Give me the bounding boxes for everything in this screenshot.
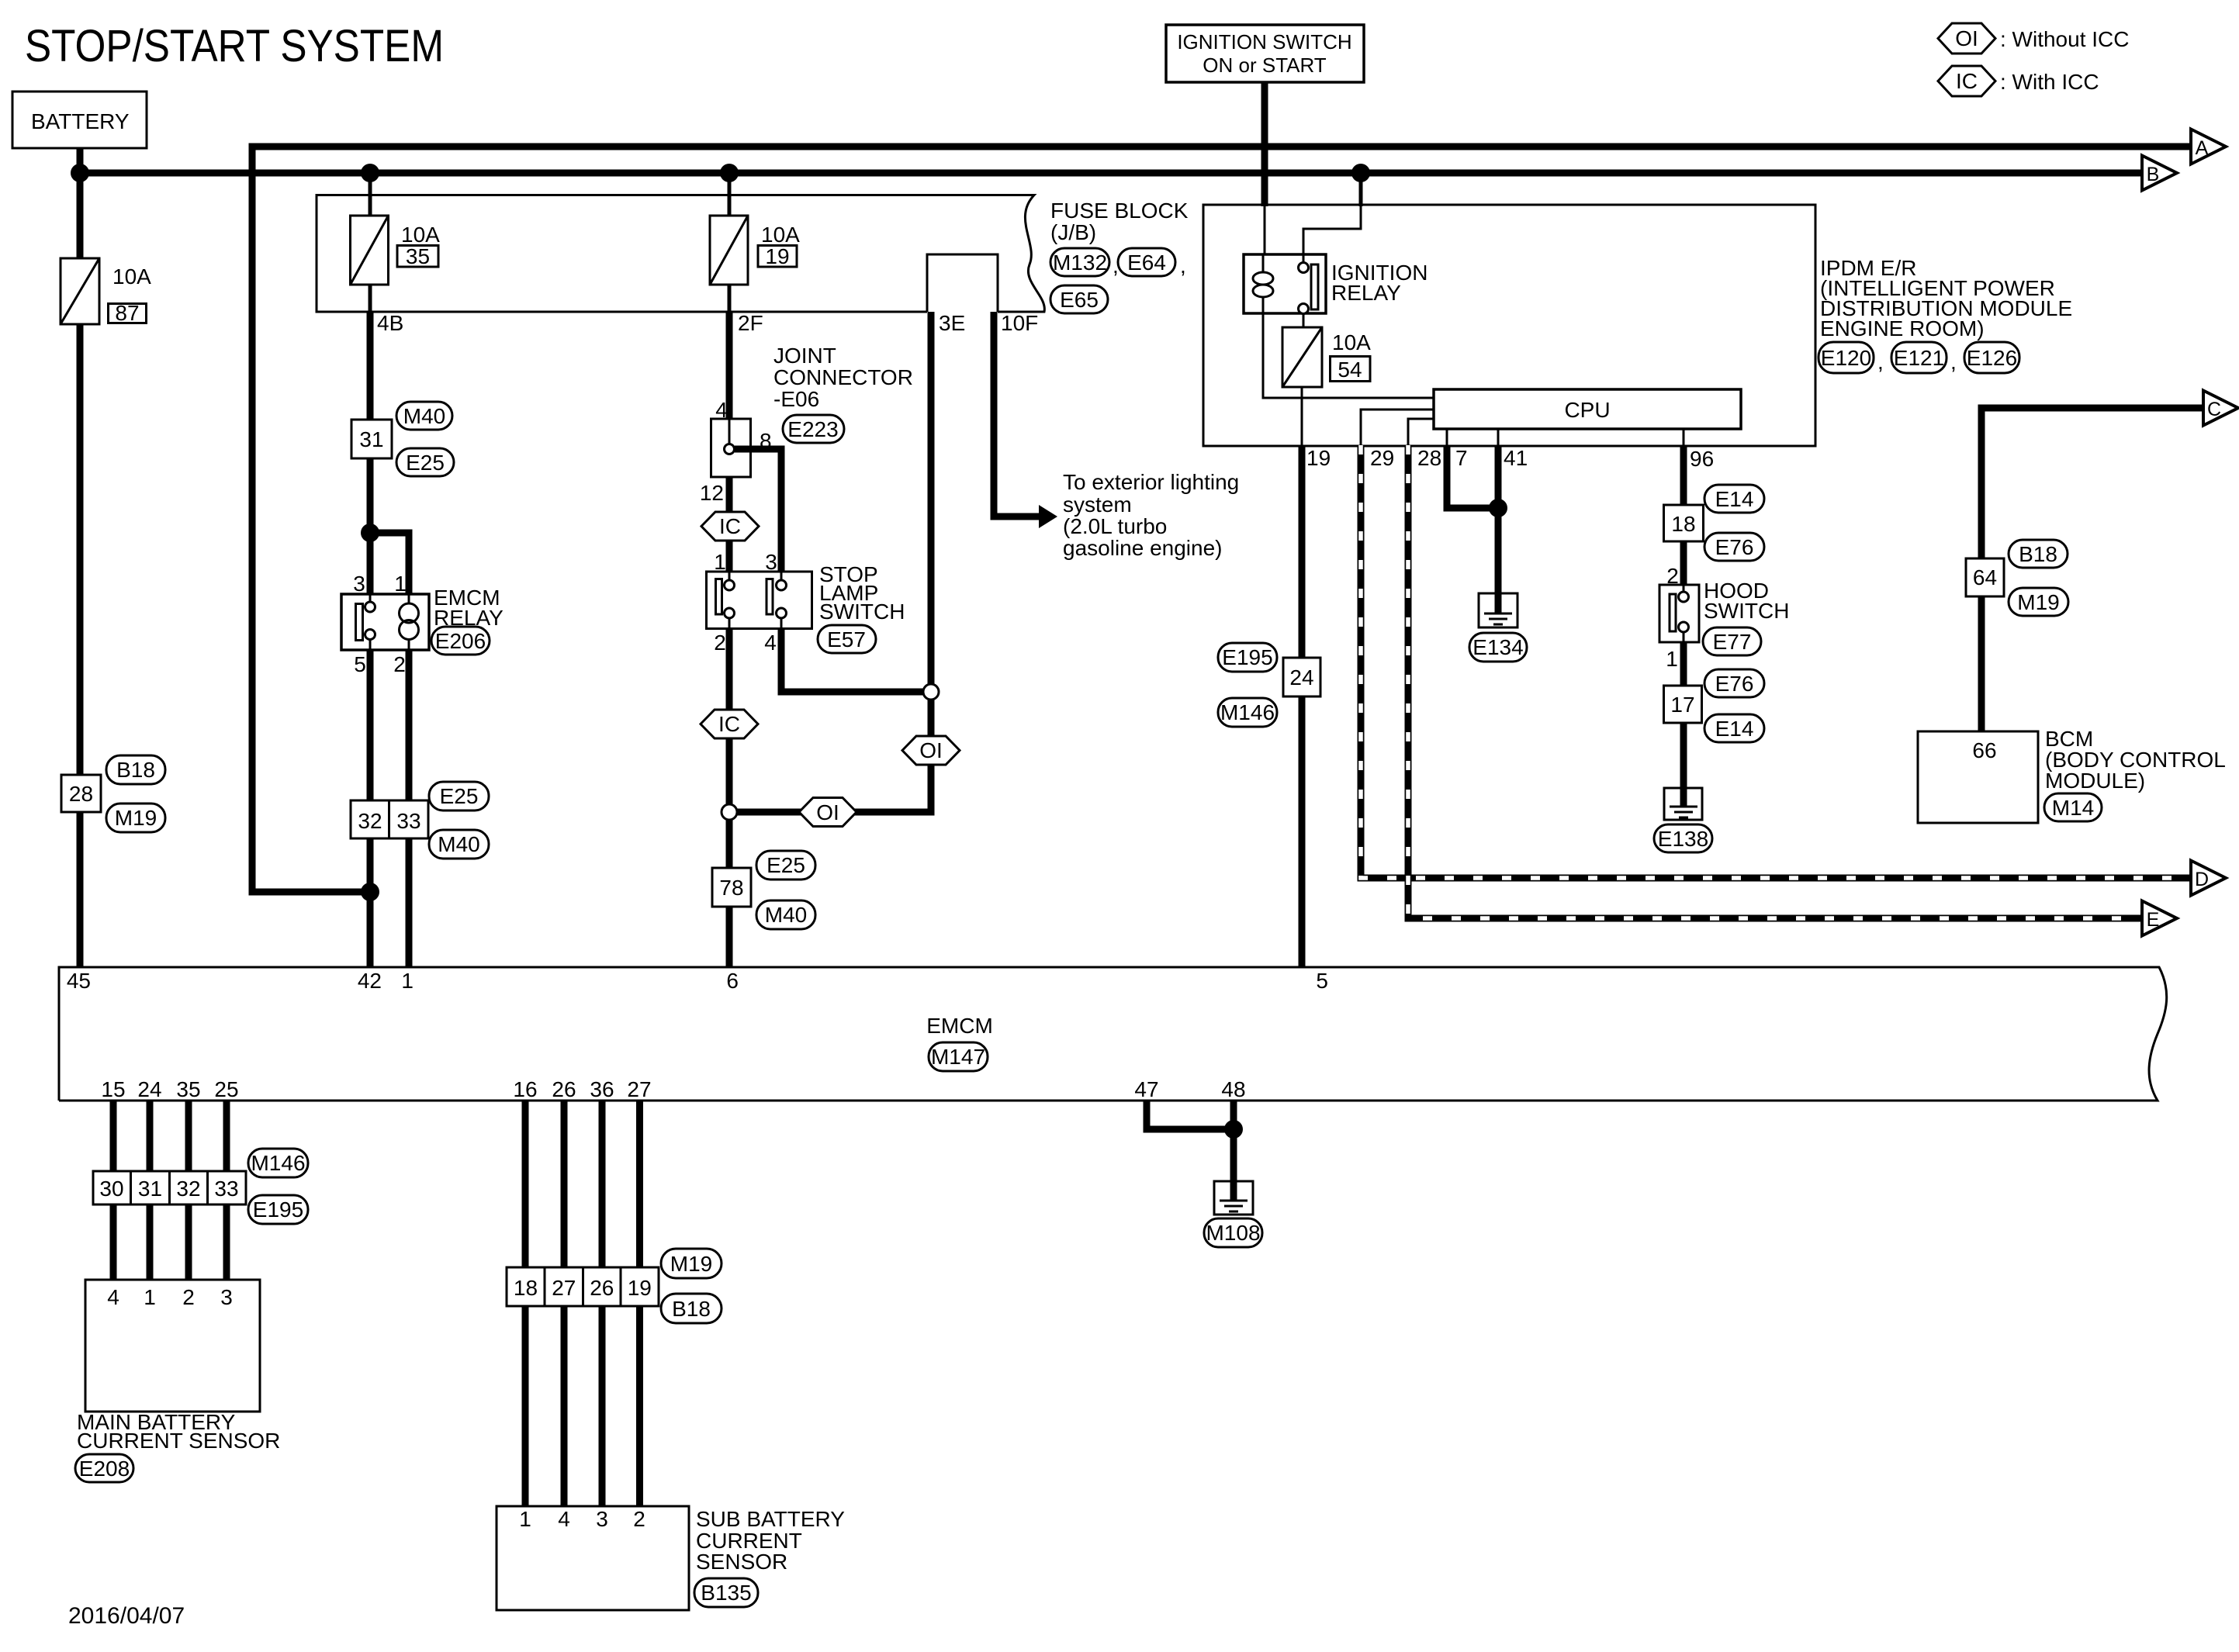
svg-text:64: 64 <box>1973 565 1997 589</box>
BCM box <box>1918 731 2038 823</box>
svg-text:33: 33 <box>214 1177 238 1201</box>
legend IC hexagon : With ICC <box>1938 66 2099 96</box>
svg-text:29: 29 <box>1370 446 1394 470</box>
CPU box <box>1434 389 1741 429</box>
svg-text:ENGINE ROOM): ENGINE ROOM) <box>1820 316 1985 340</box>
wire 3E column x1200 <box>928 312 935 812</box>
text STOP LAMP SWITCH <box>819 562 905 624</box>
svg-text:1: 1 <box>1666 647 1678 671</box>
svg-text:4: 4 <box>715 398 728 422</box>
ignition relay contact <box>1299 254 1319 327</box>
svg-text:87: 87 <box>115 301 139 325</box>
junction EMCM relay branch <box>361 524 379 542</box>
svg-text:41: 41 <box>1504 446 1528 470</box>
svg-text:M19: M19 <box>115 806 157 830</box>
fuse F19 10A <box>710 216 800 285</box>
svg-text:54: 54 <box>1338 358 1362 382</box>
connector oval E195 at 24 <box>1218 643 1277 672</box>
svg-text:IC: IC <box>1956 69 1978 93</box>
IC hexagon on pin2 wire <box>701 710 758 738</box>
fuse block J/B outline <box>317 195 1044 313</box>
stop lamp switch right contact <box>767 572 787 628</box>
IPDM E/R box <box>1203 205 1815 446</box>
EMCM bottom pin labels 47 48 <box>1134 1077 1245 1101</box>
svg-text:1: 1 <box>144 1285 156 1309</box>
pin labels under IPDM <box>1306 446 1714 471</box>
wire pin7 L to pin41 <box>1447 445 1498 508</box>
fuse F87 10A <box>61 258 151 325</box>
hood switch contact <box>1670 585 1689 642</box>
svg-text:E14: E14 <box>1715 717 1754 741</box>
svg-text:26: 26 <box>552 1077 576 1101</box>
svg-text:25: 25 <box>214 1077 238 1101</box>
svg-text:: With ICC: : With ICC <box>2000 70 2099 94</box>
label 10F <box>1001 311 1038 335</box>
svg-text:(J/B): (J/B) <box>1050 220 1096 244</box>
wire JC pin8 to stop lamp pin3 <box>735 449 781 574</box>
svg-text:ON or START: ON or START <box>1203 54 1327 77</box>
svg-text:36: 36 <box>590 1077 614 1101</box>
svg-text:E: E <box>2147 909 2160 931</box>
svg-text:10F: 10F <box>1001 311 1038 335</box>
svg-text:19: 19 <box>1306 446 1331 470</box>
ground M108 <box>1214 1181 1253 1215</box>
svg-text:10A: 10A <box>761 223 800 247</box>
svg-text:M40: M40 <box>403 404 445 428</box>
svg-text:To exterior lighting: To exterior lighting <box>1063 470 1239 494</box>
wire fuse19 column 2F x940 <box>728 173 732 422</box>
arrowhead to exterior lighting <box>1039 505 1057 528</box>
wire 3E horizontal to pin2 line <box>735 809 931 812</box>
svg-text:B18: B18 <box>116 758 155 782</box>
svg-text:2F: 2F <box>738 311 763 335</box>
svg-text:STOP/START SYSTEM: STOP/START SYSTEM <box>25 21 444 71</box>
svg-text:4B: 4B <box>377 311 403 335</box>
svg-text:30: 30 <box>99 1177 123 1201</box>
EMCM relay box <box>341 572 429 676</box>
ignition relay box <box>1244 254 1326 313</box>
svg-text:SWITCH: SWITCH <box>1704 599 1789 623</box>
svg-text:M14: M14 <box>2052 796 2094 820</box>
svg-text:IGNITION SWITCH: IGNITION SWITCH <box>1177 30 1351 54</box>
wire EMCM pin48 to ground M108 <box>1230 1101 1237 1185</box>
svg-text:16: 16 <box>513 1077 537 1101</box>
wire fuse35 column 4B x477 <box>369 173 372 967</box>
svg-text:M40: M40 <box>765 903 807 927</box>
svg-text:E14: E14 <box>1715 487 1754 511</box>
stop lamp switch box <box>707 550 812 655</box>
connector oval E64 <box>1118 248 1186 278</box>
svg-text:10A: 10A <box>401 223 440 247</box>
svg-text:SENSOR: SENSOR <box>696 1550 787 1574</box>
svg-text:IC: IC <box>718 712 740 736</box>
svg-text:M19: M19 <box>2017 590 2059 614</box>
svg-text:32: 32 <box>358 809 382 833</box>
connector 64 box <box>1966 558 2004 596</box>
fuse F35 10A <box>351 216 441 285</box>
connector oval E57 <box>818 625 876 653</box>
svg-text:E25: E25 <box>440 784 479 808</box>
connector oval B135 <box>694 1578 758 1607</box>
connector 78 box <box>712 868 751 907</box>
connector oval E208 <box>75 1454 133 1482</box>
wire relay pin2 down to EMCM pin1 <box>406 647 413 967</box>
svg-text:31: 31 <box>138 1177 162 1201</box>
wire pin41 from CPU <box>1497 429 1500 445</box>
svg-text:2: 2 <box>393 652 406 676</box>
EMCM top pin labels <box>67 969 1328 993</box>
connector 24 box on pin19 wire <box>1283 658 1320 696</box>
connector row 30 31 32 33 <box>93 1171 246 1204</box>
wire JC pin12 down to stop lamp pin1 <box>726 477 733 574</box>
svg-text:: Without ICC: : Without ICC <box>2000 27 2129 51</box>
svg-text:M108: M108 <box>1206 1221 1260 1245</box>
svg-text:3: 3 <box>765 550 777 574</box>
svg-text:10A: 10A <box>1332 330 1371 354</box>
svg-text:1: 1 <box>519 1507 531 1531</box>
svg-text:SUB BATTERY: SUB BATTERY <box>696 1507 845 1531</box>
svg-text:E208: E208 <box>79 1457 130 1481</box>
title STOP/START SYSTEM <box>25 21 444 71</box>
svg-text:CONNECTOR: CONNECTOR <box>773 365 913 389</box>
svg-text:CPU: CPU <box>1564 398 1610 422</box>
svg-text:1: 1 <box>401 969 414 993</box>
connector oval M108 <box>1204 1218 1262 1247</box>
text BCM (BODY CONTROL MODULE) <box>2045 727 2226 793</box>
connector oval M14 <box>2044 793 2102 821</box>
svg-text:SWITCH: SWITCH <box>819 600 905 624</box>
svg-text:MODULE): MODULE) <box>2045 769 2145 793</box>
label 2F <box>738 311 763 335</box>
svg-text:E223: E223 <box>787 417 838 441</box>
svg-text:EMCM: EMCM <box>926 1014 993 1038</box>
connector oval B18 <box>106 755 165 784</box>
connector oval M146 row <box>248 1149 308 1177</box>
wires EMCM pins 16 26 36 27 to sub sensor <box>525 1101 640 1506</box>
svg-text:66: 66 <box>1972 738 1996 762</box>
wire pin96 from CPU <box>1683 429 1685 445</box>
svg-text:E76: E76 <box>1715 535 1754 559</box>
svg-text:M146: M146 <box>1220 700 1275 724</box>
svg-text:E65: E65 <box>1060 288 1099 312</box>
svg-text:1: 1 <box>714 550 726 574</box>
svg-text:19: 19 <box>628 1276 652 1300</box>
svg-text:B18: B18 <box>2019 542 2057 566</box>
wire pin19 down to EMCM pin5 <box>1299 445 1306 967</box>
svg-text:17: 17 <box>1670 693 1694 717</box>
svg-text:28: 28 <box>1417 446 1441 470</box>
svg-text:7: 7 <box>1455 446 1468 470</box>
connector oval M132 <box>1050 248 1119 278</box>
label hood pin2 <box>1666 564 1679 588</box>
connector oval E138 <box>1654 824 1712 852</box>
svg-text:28: 28 <box>69 782 93 806</box>
connector oval E120 <box>1819 342 1884 374</box>
svg-text:E195: E195 <box>253 1198 303 1222</box>
svg-text:1: 1 <box>394 572 407 596</box>
svg-text:gasoline engine): gasoline engine) <box>1063 536 1223 560</box>
wire bus A from corner x325 to arrow A <box>252 143 2191 150</box>
svg-text:27: 27 <box>627 1077 651 1101</box>
date 2016/04/07 <box>68 1603 185 1629</box>
arrow D <box>2191 861 2226 896</box>
OI hexagon on horizontal link <box>799 798 856 827</box>
svg-text:32: 32 <box>176 1177 200 1201</box>
wire pin28 dashed to arrow E <box>1408 445 2142 918</box>
junction pin7 pin41 <box>1489 499 1507 517</box>
svg-text:96: 96 <box>1690 447 1714 471</box>
connector oval E76 at 17 <box>1704 669 1764 697</box>
svg-text:33: 33 <box>396 809 420 833</box>
connector 31 box <box>351 420 392 458</box>
connector 18 box on pin96 wire <box>1664 505 1704 541</box>
junction bus B ignition feed <box>1351 164 1370 182</box>
svg-text:OI: OI <box>816 800 839 824</box>
wire pin7 from CPU <box>1446 429 1448 445</box>
legend OI hexagon : Without ICC <box>1938 23 2129 54</box>
svg-text:M132: M132 <box>1053 251 1107 275</box>
svg-text:CURRENT SENSOR: CURRENT SENSOR <box>77 1429 280 1453</box>
svg-text:E64: E64 <box>1127 251 1166 275</box>
EMCM bottom pin labels left group <box>101 1077 238 1101</box>
ground E138 <box>1664 788 1702 820</box>
text JOINT CONNECTOR -E06 <box>773 344 913 411</box>
EMCM relay contact <box>356 594 375 650</box>
connector oval M146 at 24 <box>1218 698 1277 727</box>
wire pin41 down to ground E134 <box>1495 445 1502 597</box>
connector oval E134 <box>1469 633 1527 662</box>
svg-text:2: 2 <box>714 631 726 655</box>
text IGNITION RELAY <box>1331 261 1427 305</box>
svg-text:E76: E76 <box>1715 672 1754 696</box>
connector 32 33 boxes <box>351 800 428 838</box>
arrow E <box>2142 901 2177 936</box>
svg-text:5: 5 <box>1316 969 1328 993</box>
svg-text:24: 24 <box>137 1077 161 1101</box>
connector row 18 27 26 19 <box>507 1267 659 1306</box>
svg-text:2016/04/07: 2016/04/07 <box>68 1603 185 1629</box>
junction bus B fuse35 <box>361 164 379 182</box>
svg-text:18: 18 <box>514 1276 538 1300</box>
EMCM relay coil <box>400 594 419 650</box>
svg-text:E57: E57 <box>827 627 866 651</box>
svg-text:A: A <box>2196 137 2209 159</box>
svg-text:3: 3 <box>220 1285 233 1309</box>
connector oval E206 <box>431 627 490 655</box>
svg-text:B18: B18 <box>672 1297 711 1321</box>
svg-text:E25: E25 <box>406 451 445 475</box>
text EMCM <box>926 1014 993 1038</box>
ground E134 <box>1479 593 1517 627</box>
connector 28 box on battery column <box>61 775 101 812</box>
svg-text:FUSE BLOCK: FUSE BLOCK <box>1050 199 1189 223</box>
connector oval M147 <box>929 1042 988 1071</box>
svg-text:4: 4 <box>764 631 777 655</box>
junction trunk to EMCM pin42 <box>361 883 379 901</box>
sub battery current sensor box <box>497 1506 689 1610</box>
svg-text:OI: OI <box>1955 26 1978 50</box>
svg-text:E25: E25 <box>767 853 805 877</box>
junction circle on 3E line <box>923 684 939 700</box>
wire pin29 to CPU <box>1361 410 1434 445</box>
wire branch to relay coil pin1 <box>370 533 409 597</box>
svg-text:6: 6 <box>726 969 739 993</box>
svg-text:RELAY: RELAY <box>1331 281 1401 305</box>
svg-text:35: 35 <box>176 1077 200 1101</box>
wire coil bottom to CPU <box>1263 313 1434 398</box>
junction battery bus B <box>71 164 89 182</box>
connector oval B18 at 64 <box>2009 540 2068 568</box>
svg-text:OI: OI <box>919 738 943 762</box>
text to exterior lighting system <box>1063 470 1239 560</box>
arrow C <box>2203 391 2238 426</box>
svg-text:E206: E206 <box>435 629 486 653</box>
svg-text:47: 47 <box>1134 1077 1158 1101</box>
svg-text:E126: E126 <box>1967 346 2017 370</box>
svg-text:,: , <box>1950 350 1957 374</box>
connector oval E65 <box>1050 285 1108 313</box>
svg-text:system: system <box>1063 492 1132 517</box>
connector oval E25 at 31 <box>396 448 454 476</box>
svg-text:4: 4 <box>558 1507 570 1531</box>
svg-text:E77: E77 <box>1713 630 1752 654</box>
text FUSE BLOCK (J/B) <box>1050 199 1189 244</box>
svg-text:45: 45 <box>67 969 91 993</box>
svg-text:4: 4 <box>107 1285 119 1309</box>
text IPDM E/R block <box>1820 256 2072 340</box>
wire bus B to ignition relay contact <box>1303 173 1361 256</box>
wire battery column x103 <box>77 148 84 967</box>
svg-text:2: 2 <box>182 1285 195 1309</box>
joint connector E06 box <box>700 398 772 505</box>
wire BCM column from arrow C <box>1981 408 2203 731</box>
IC hexagon on pin12 wire <box>701 512 759 541</box>
text EMCM RELAY <box>434 586 504 630</box>
connector oval M40 below 78 <box>756 900 815 929</box>
wire stop lamp pin4 L to 3E junction <box>781 628 923 692</box>
connector oval M19 row <box>661 1249 722 1278</box>
svg-text:12: 12 <box>700 481 724 505</box>
connector oval E76 at 18 <box>1704 533 1764 561</box>
junction circle on pin2 line <box>722 804 737 820</box>
svg-text:27: 27 <box>552 1276 576 1300</box>
wire EMCM pin47 to ground junction <box>1147 1101 1234 1129</box>
svg-text:E120: E120 <box>1821 346 1871 370</box>
battery box <box>12 92 147 148</box>
svg-text:5: 5 <box>354 652 366 676</box>
OI hexagon on 3E vertical <box>902 736 960 765</box>
svg-text:E138: E138 <box>1658 827 1708 851</box>
stop lamp switch left contact <box>716 572 735 628</box>
text SUB BATTERY CURRENT SENSOR <box>696 1507 845 1574</box>
junction bus B fuse19 <box>720 164 739 182</box>
connector oval E126 <box>1964 342 2019 373</box>
svg-text:M146: M146 <box>251 1151 305 1175</box>
connector oval E25 at 32 <box>429 782 489 810</box>
hood switch box <box>1659 585 1699 642</box>
connector oval M40 at 33 <box>429 830 489 859</box>
connector oval M19 at 64 <box>2009 588 2068 616</box>
connector oval B18 row <box>661 1294 722 1323</box>
EMCM bottom pin labels mid group <box>513 1077 651 1101</box>
svg-text:E134: E134 <box>1472 635 1523 659</box>
connector oval E195 row <box>248 1195 308 1224</box>
svg-text:IC: IC <box>719 514 741 538</box>
EMCM box <box>59 967 2167 1101</box>
svg-text:B135: B135 <box>701 1581 751 1605</box>
wire stop lamp pin2 down to EMCM pin6 <box>726 628 733 967</box>
connector oval E14 at 17 <box>1704 714 1764 742</box>
svg-text:B: B <box>2147 164 2160 185</box>
svg-text:18: 18 <box>1671 512 1695 536</box>
fuse F54 10A <box>1282 327 1371 387</box>
connector oval E223 <box>783 415 844 443</box>
svg-text:10A: 10A <box>112 264 151 289</box>
svg-text:,: , <box>1877 350 1884 374</box>
svg-text:C: C <box>2207 399 2221 420</box>
main battery current sensor box <box>85 1280 260 1412</box>
svg-text:M147: M147 <box>931 1045 985 1069</box>
svg-text:48: 48 <box>1221 1077 1245 1101</box>
label 3E <box>939 311 965 335</box>
wire pin28 to CPU <box>1408 419 1434 445</box>
connector oval E25 above 78 <box>756 851 815 880</box>
text HOOD SWITCH <box>1704 579 1789 623</box>
connector oval M19 <box>106 804 165 832</box>
svg-text:-E06: -E06 <box>773 387 819 411</box>
svg-text:78: 78 <box>719 876 743 900</box>
connector oval E77 <box>1703 627 1761 655</box>
svg-text:35: 35 <box>406 244 430 268</box>
wire pin29 dashed to arrow D <box>1361 445 2191 878</box>
wire 10F column x1281 <box>994 312 1040 517</box>
svg-text:3: 3 <box>596 1507 608 1531</box>
svg-text:3: 3 <box>353 572 365 596</box>
svg-text:JOINT: JOINT <box>773 344 836 368</box>
arrow B <box>2142 156 2177 191</box>
ignition relay coil <box>1253 254 1273 313</box>
junction pins 47 48 <box>1224 1120 1243 1139</box>
wires EMCM pins 15 24 35 25 to main sensor <box>113 1101 227 1280</box>
IGNITION SWITCH box <box>1166 25 1364 82</box>
wire vertical trunk x325 down from bus A <box>252 143 373 893</box>
svg-text:E195: E195 <box>1222 645 1272 669</box>
svg-text:42: 42 <box>358 969 382 993</box>
connector 17 box <box>1664 686 1702 723</box>
svg-text:15: 15 <box>101 1077 125 1101</box>
svg-text:BATTERY: BATTERY <box>31 109 130 133</box>
wire fuse54 to pin19 <box>1301 387 1303 445</box>
svg-text:,: , <box>1180 254 1186 278</box>
svg-text:2: 2 <box>633 1507 645 1531</box>
wire pin96 down to ground E138 <box>1680 445 1687 791</box>
svg-text:M19: M19 <box>670 1252 712 1276</box>
svg-text:D: D <box>2195 869 2209 890</box>
svg-text:31: 31 <box>359 427 383 451</box>
connector oval E14 at 18 <box>1704 485 1764 513</box>
connector oval M40 at 31 <box>396 402 452 430</box>
svg-text:(2.0L turbo: (2.0L turbo <box>1063 514 1167 538</box>
connector oval E121 <box>1891 342 1957 374</box>
label 4B <box>377 311 403 335</box>
svg-text:26: 26 <box>590 1276 614 1300</box>
svg-text:M40: M40 <box>438 832 479 856</box>
text MAIN BATTERY CURRENT SENSOR <box>77 1410 280 1453</box>
arrow A <box>2191 130 2226 164</box>
label hood pin1 <box>1666 647 1678 671</box>
wire bus B from battery junction to arrow B <box>80 170 2142 177</box>
wire ignition switch to IPDM <box>1261 82 1268 254</box>
